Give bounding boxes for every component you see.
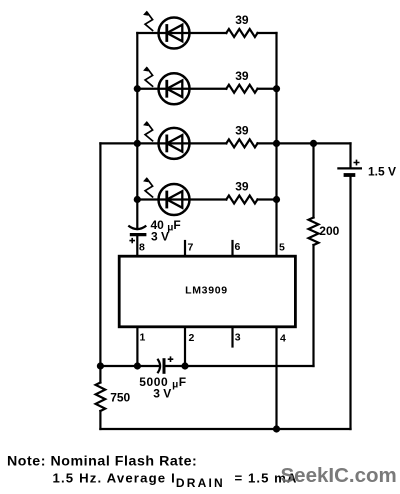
svg-text:3 V: 3 V bbox=[151, 230, 169, 244]
svg-text:2: 2 bbox=[189, 332, 195, 344]
svg-text:39: 39 bbox=[235, 69, 249, 83]
svg-text:1: 1 bbox=[140, 332, 146, 344]
svg-text:39: 39 bbox=[235, 13, 249, 27]
svg-text:LM3909: LM3909 bbox=[185, 284, 228, 296]
svg-text:5: 5 bbox=[279, 242, 285, 254]
svg-text:3: 3 bbox=[235, 332, 241, 344]
svg-text:200: 200 bbox=[319, 224, 339, 238]
svg-text:6: 6 bbox=[235, 241, 241, 253]
svg-text:750: 750 bbox=[110, 391, 130, 405]
svg-text:4: 4 bbox=[280, 333, 286, 345]
svg-text:1.5 V: 1.5 V bbox=[368, 164, 396, 178]
svg-text:SeekIC.com: SeekIC.com bbox=[281, 464, 397, 487]
svg-text:39: 39 bbox=[235, 124, 249, 138]
svg-text:39: 39 bbox=[235, 179, 249, 193]
svg-text:7: 7 bbox=[188, 242, 194, 254]
svg-text:8: 8 bbox=[139, 242, 145, 254]
svg-text:3 V: 3 V bbox=[153, 386, 171, 400]
svg-text:Note: Nominal Flash Rate:: Note: Nominal Flash Rate: bbox=[7, 454, 197, 470]
